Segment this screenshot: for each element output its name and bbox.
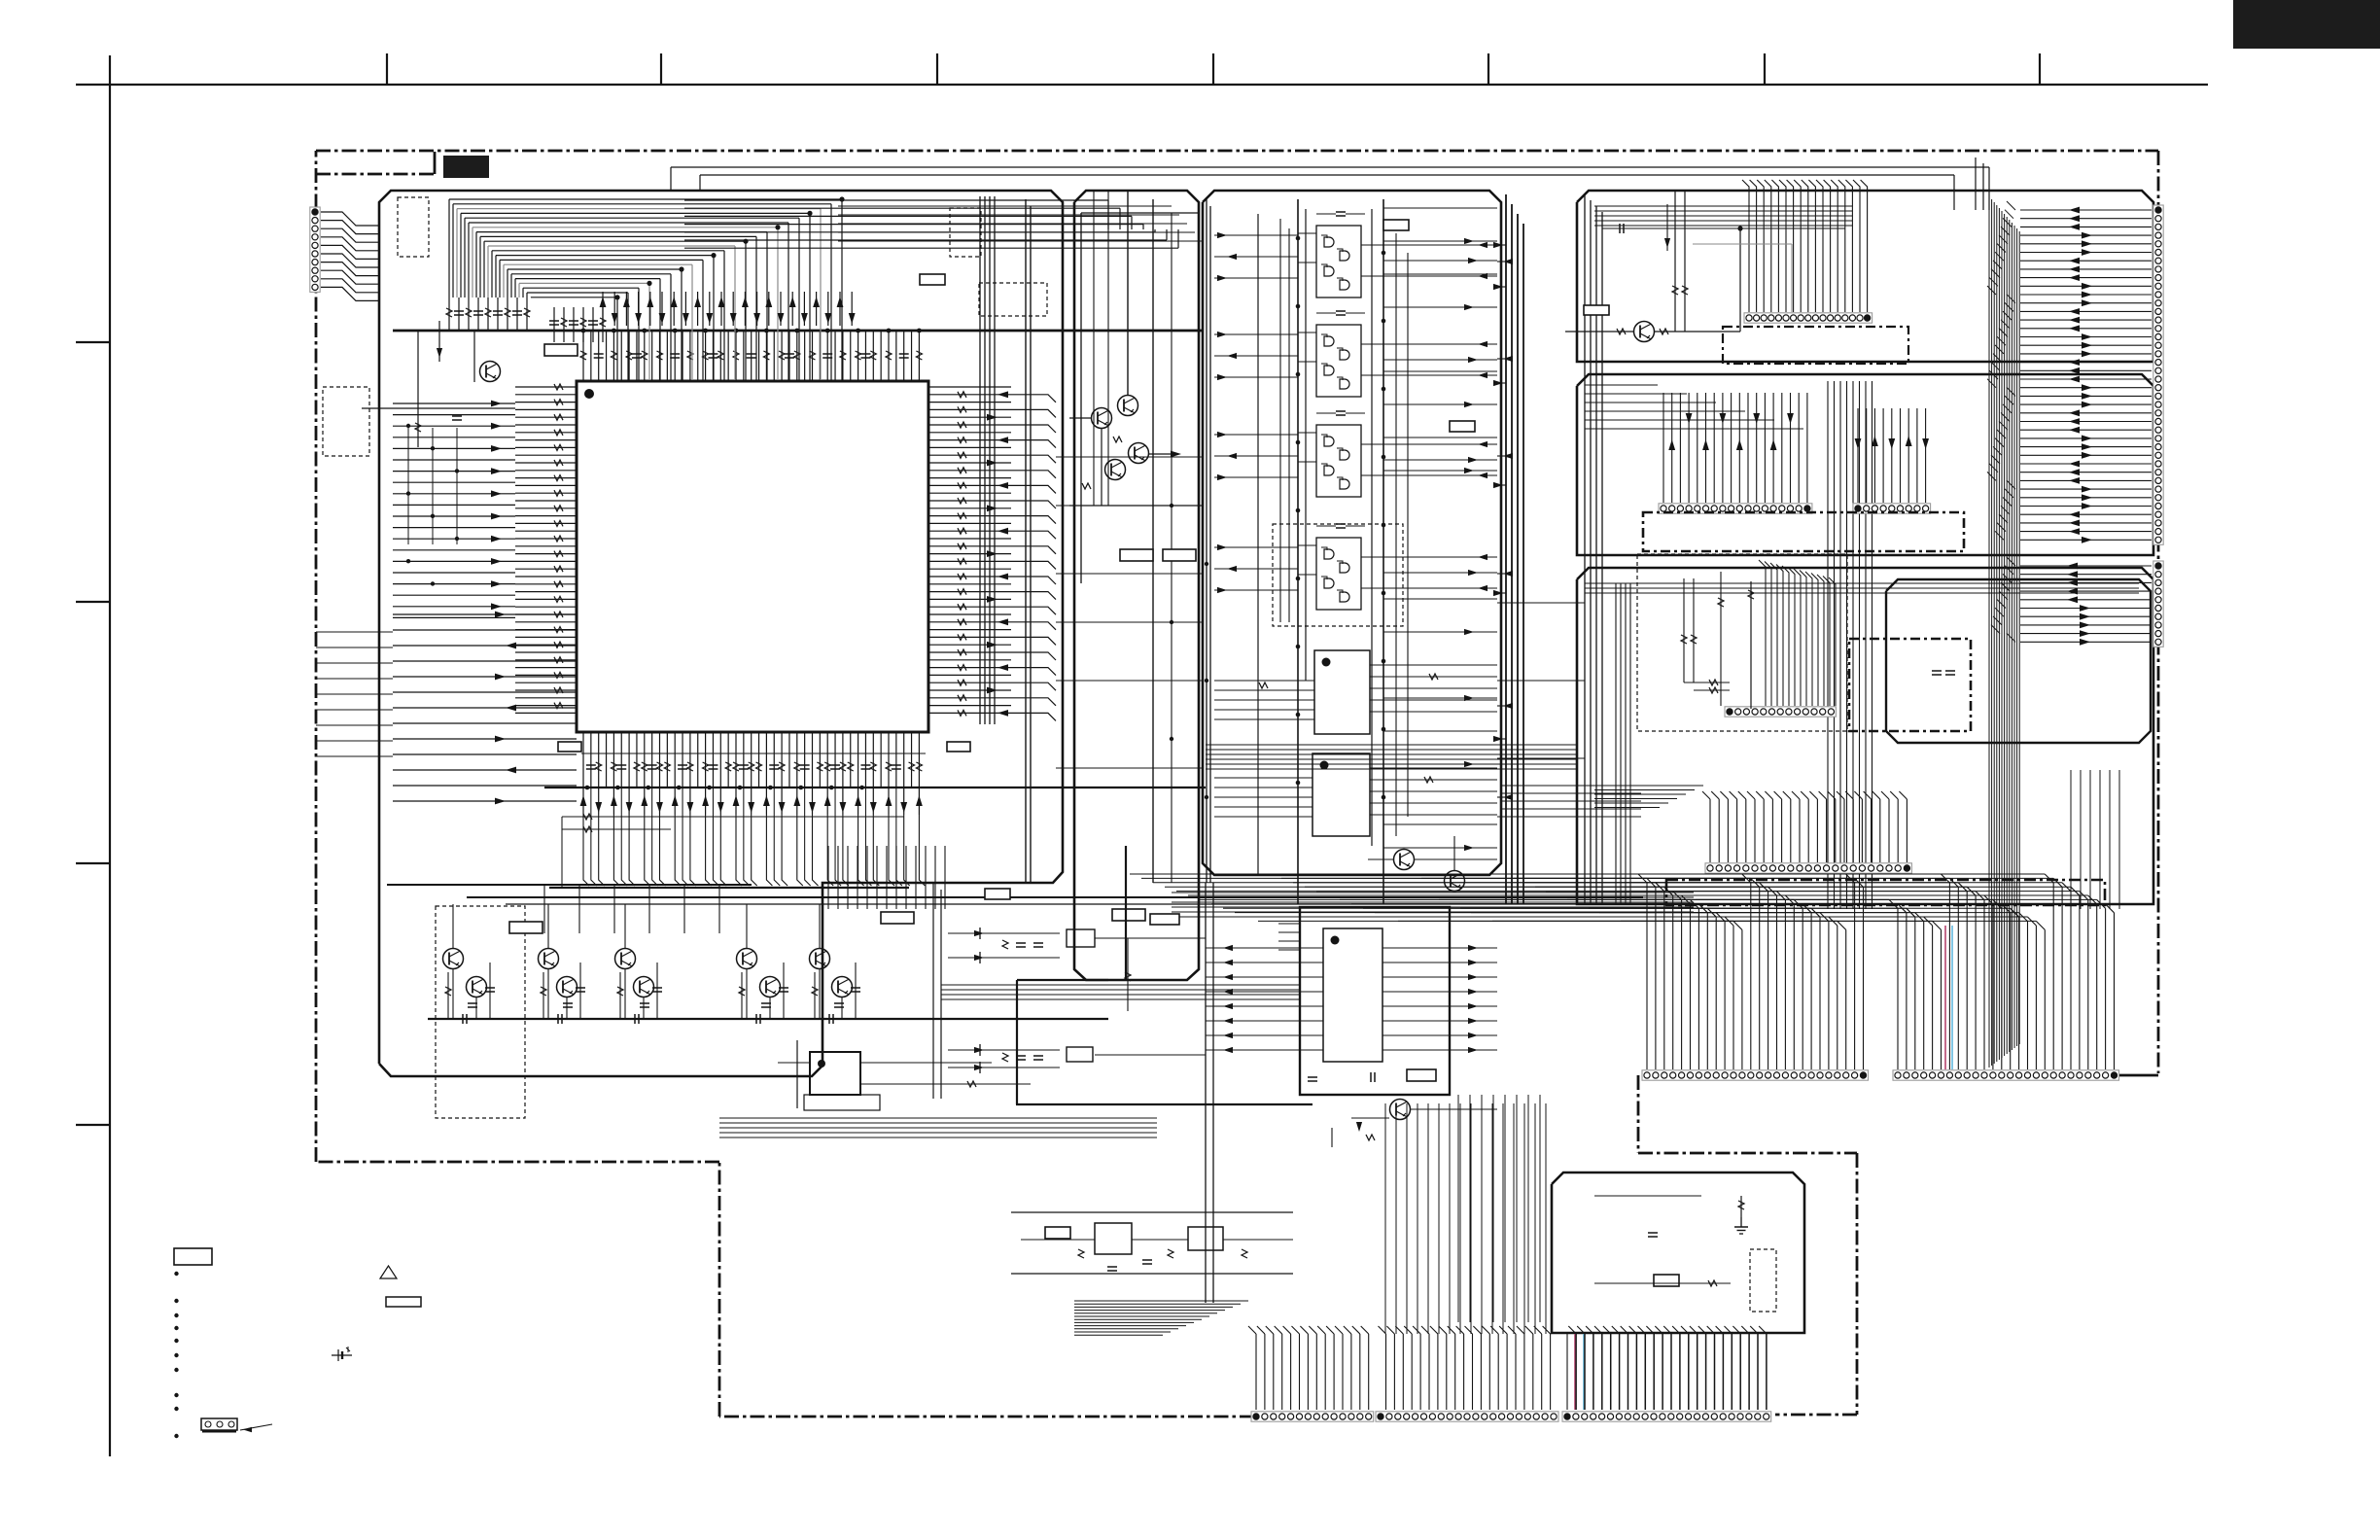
transistor Q503: [1390, 1100, 1411, 1120]
block E1 wires: [1565, 191, 1845, 334]
arrow column right of IC101: [987, 391, 1008, 716]
legend bullet list: [174, 1272, 178, 1438]
diode-capacitor bank (power entry): [933, 883, 1213, 1303]
IC101 right pins: [928, 387, 1056, 720]
board outline (dash-dot): [316, 151, 2158, 1417]
IC U305: [1314, 650, 1370, 734]
transistor Q405: [615, 949, 636, 969]
regulator row: [1011, 1212, 1293, 1274]
dashed outline box E3: [1637, 554, 1847, 731]
transistor Q402: [467, 977, 487, 997]
CN301 wires with arrows: [1987, 201, 2152, 543]
transistor Q401: [443, 949, 464, 969]
vertical bus G1 with feeders: [1130, 874, 1864, 1069]
transistor Q101: [480, 362, 501, 382]
wire bus left of IC101: [393, 403, 515, 617]
power bus below IC101: [544, 787, 1206, 788]
horizontal bundle in E3 lower: [1172, 786, 1694, 917]
label box L6: [1450, 421, 1475, 432]
wire rails upper block B: [1094, 191, 1172, 883]
block outline E3: [1577, 568, 2153, 904]
CN201 riser wires: [1742, 180, 1868, 312]
IC U301 quad gate: [1298, 212, 1383, 297]
label box L9: [881, 912, 914, 924]
wire mesh left of IC101: [408, 428, 457, 544]
red signal wire bottom: [1574, 1334, 1576, 1410]
dashed outline box around Q401/Q402: [436, 906, 525, 1118]
crossing wires between blocks: [1056, 206, 2139, 817]
crossing wires A to C top: [838, 206, 1203, 241]
resistor array left of IC101: [554, 384, 563, 709]
wires upper block E2: [1585, 385, 1803, 429]
block F contents: [1594, 1196, 1776, 1312]
connector CN401a: [1251, 1412, 1374, 1421]
transistor Q202: [1118, 396, 1138, 416]
IC U306: [1312, 753, 1370, 836]
wire rails right of IC101: [980, 196, 995, 724]
arrow column left-bus: [491, 401, 502, 611]
transistor Q4010: [832, 977, 853, 997]
IC101 left pins: [515, 387, 577, 713]
dash-dot module box under CN201: [1723, 327, 1908, 364]
dashed outline box D4: [323, 387, 369, 456]
power bus above IC101: [393, 330, 1202, 332]
dashed outline around U304: [1273, 524, 1403, 626]
wire rail between A and B blocks: [1026, 199, 1031, 883]
inner outline block B: [1081, 213, 1199, 583]
IC U303 quad gate: [1298, 411, 1383, 497]
legend connector symbol: [201, 1418, 272, 1432]
wire bus lower-left of IC101: [393, 612, 577, 805]
transistor Q409: [810, 949, 830, 969]
CN202 riser wires: [1663, 393, 1807, 503]
arrow row below IC101: [580, 787, 926, 886]
wire rails block C: [1280, 199, 1408, 904]
wires right of gate column: [1383, 208, 1497, 851]
wires around Q201-Q204: [1069, 191, 1204, 883]
transistor Q406: [634, 977, 654, 997]
long wires under top board edge: [671, 167, 1989, 210]
board outline notch: [316, 152, 435, 174]
connector CN202: [1659, 504, 1812, 513]
wire bus top-left nested: [449, 196, 845, 380]
CN302 wires with arrows: [1991, 557, 2152, 646]
routing channel below blocks: [719, 745, 1577, 1322]
dash-dot module box under CN202/CN203: [1643, 512, 1964, 551]
arrow row on CN202 risers: [1668, 413, 1794, 450]
gate column feed wires: [1214, 232, 1497, 593]
vertical bus above CN401: [1248, 1326, 1767, 1410]
IC U302 quad gate: [1298, 311, 1383, 397]
wire rails left edge of E blocks: [1585, 194, 1602, 904]
block E3 wires: [1681, 560, 1955, 709]
wire rail inside C: [1257, 214, 1259, 875]
wires around Q501-Q503: [1332, 836, 1497, 1147]
block outline F (bottom right): [1552, 1172, 1804, 1333]
transistor Q403: [539, 949, 559, 969]
block outline C: [1203, 191, 1501, 875]
bus row y925: [467, 897, 1643, 904]
label box L10: [985, 889, 1010, 899]
resistor cluster above-left of IC101: [446, 297, 606, 342]
connector CN401b: [1376, 1412, 1558, 1421]
label box L2: [920, 274, 945, 285]
feed bus into CN205: [1594, 786, 1703, 808]
connector CN205: [1705, 863, 1911, 873]
IC101 bottom pins: [581, 732, 926, 787]
vertical trunk bus right side: [1989, 196, 2019, 1067]
transistor Q203: [1129, 443, 1149, 464]
junction dots (misc): [406, 236, 1385, 800]
wire rails lower right of E blocks: [2071, 770, 2119, 909]
feeder bus into CN401 from left: [1074, 1301, 1248, 1335]
legend battery symbol: [332, 1347, 352, 1361]
bus line below pin fan: [549, 887, 909, 889]
transistor Q502: [1445, 871, 1465, 892]
CN205 riser wires: [1702, 791, 1907, 862]
connector CN301 (right edge, long): [2153, 205, 2163, 544]
connector CN303: [1642, 1070, 1869, 1080]
IC U401: [778, 1040, 1031, 1110]
block outline E2: [1577, 374, 2153, 555]
transistor Q501: [1394, 850, 1415, 870]
wires y840 under IC101: [562, 814, 904, 888]
connector CN401c: [1562, 1412, 1771, 1421]
transistor Q301: [1634, 322, 1655, 342]
dashed outline box D3: [979, 283, 1047, 316]
transistor Q407: [737, 949, 757, 969]
label box L1: [544, 344, 577, 356]
wire rails between C and E: [1506, 194, 1523, 904]
arrow row above IC101: [600, 292, 856, 326]
wires around U305/U306: [1214, 665, 1497, 817]
wire rails inside E blocks: [1616, 381, 1872, 909]
label box L4: [1163, 549, 1196, 561]
connector CN302 (right edge, short): [2153, 561, 2163, 647]
dashed outline box D1: [398, 197, 429, 257]
routing channel left of board: [316, 632, 393, 756]
red signal wire: [1944, 926, 1946, 1069]
block outline E1: [1577, 191, 2153, 362]
block F bus into CN401c: [1567, 1333, 1767, 1410]
board name tab (filled): [443, 156, 489, 178]
label box under IC left: [558, 742, 581, 752]
capacitor array below IC101: [586, 762, 923, 771]
blue signal wire: [1951, 926, 1953, 1069]
connector CN201: [1744, 313, 1872, 323]
connector CN204: [1725, 707, 1836, 717]
PLL sub-circuit box: [1016, 846, 1497, 1104]
wire bus top horizontal runs: [684, 200, 1178, 248]
legend triangle symbol: [380, 1266, 397, 1278]
IC101 top pins: [583, 331, 919, 381]
transistor Q201: [1092, 408, 1112, 429]
wires from above into transistor row: [387, 846, 945, 933]
arrow column into block C right edge: [1493, 242, 1513, 800]
transistor Q204: [1105, 460, 1126, 480]
label box L3: [1120, 549, 1153, 561]
bias network under transistor row: [428, 904, 1108, 1024]
capacitor/resistor array above IC101: [580, 351, 922, 360]
label box L7: [1584, 305, 1609, 315]
dash-dot long module bar: [1666, 880, 2105, 905]
legend box: [174, 1248, 212, 1265]
block outline A (main LSI block): [379, 191, 1063, 1076]
CN101 fan-out wires: [321, 212, 379, 300]
connector CN203: [1853, 504, 1931, 513]
risers from circuits above into CN401: [1385, 1103, 1546, 1334]
diode D101: [438, 321, 440, 362]
top-right corner wires: [1976, 157, 1983, 210]
junction dots on power bus: [581, 329, 922, 333]
CN203 riser wires: [1858, 408, 1926, 503]
resistor array right of IC101: [958, 392, 966, 717]
transistor Q404: [557, 977, 577, 997]
block outline B: [1074, 191, 1199, 980]
legend rectangle symbol: [386, 1297, 421, 1307]
label box L5: [1383, 220, 1409, 230]
wire rail between B and C blocks: [1207, 199, 1210, 883]
transistor Q408: [760, 977, 781, 997]
IC IC101 main LSI: [577, 381, 928, 732]
vertical bus G2 with feeders: [1439, 874, 2115, 1069]
IC U304 quad gate: [1298, 524, 1383, 610]
label box L8: [509, 922, 542, 933]
connector CN304: [1893, 1070, 2119, 1080]
blue signal wire bottom: [1583, 1334, 1585, 1410]
inner block outline in E3: [1886, 579, 2151, 743]
connector CN101 (left edge): [310, 207, 320, 292]
block E2 top feed wires: [1581, 385, 1741, 393]
dash-dot module box E3 right: [1849, 639, 1971, 731]
junction wires near Q101: [362, 331, 515, 447]
dashed outline box D2: [950, 208, 981, 257]
label box under IC right: [947, 742, 970, 752]
arrow row on CN203 risers: [1855, 436, 1929, 449]
